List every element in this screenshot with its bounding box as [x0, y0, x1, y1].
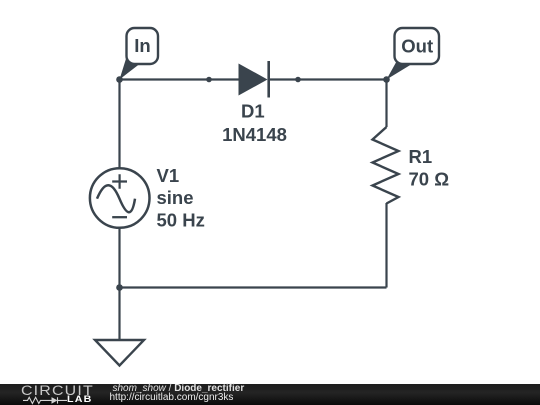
wire Out node down to R1 top — [385, 80, 387, 128]
V1 minus sign — [112, 216, 127, 218]
node dot D1 anode terminal — [206, 77, 212, 83]
node dot D1 cathode terminal — [295, 77, 301, 83]
wire V1 bottom to bottom junction — [118, 227, 120, 288]
flag In box — [127, 28, 159, 64]
svg-text:In: In — [134, 35, 150, 56]
logo diode triangle — [52, 397, 58, 404]
wire D1 cathode to Out node — [269, 78, 387, 80]
svg-text:Out: Out — [401, 36, 433, 57]
junction dot bottom — [116, 284, 123, 291]
svg-text:50 Hz: 50 Hz — [157, 210, 205, 231]
V1 plus sign — [112, 174, 127, 189]
diode D1 cathode bar — [267, 61, 270, 98]
node dot In — [116, 76, 123, 83]
flag In pointer — [120, 56, 141, 80]
wire In node down to V1 top — [118, 80, 120, 170]
diode D1 triangle (anode) — [239, 64, 268, 96]
svg-text:R1: R1 — [409, 146, 433, 167]
flag Out box — [395, 28, 440, 64]
node dot Out — [383, 76, 390, 83]
wire bottom junction to R1 bottom — [120, 286, 387, 288]
flag Out pointer — [387, 62, 412, 80]
V1 sine waveform — [97, 185, 135, 212]
wire In node to D1 anode — [120, 78, 239, 80]
logo wire squiggle (resistor + diode doodle) — [23, 397, 67, 403]
ground symbol — [95, 340, 144, 366]
svg-text:D1: D1 — [241, 101, 265, 122]
resistor R1 zigzag — [373, 127, 399, 204]
svg-text:70 Ω: 70 Ω — [409, 169, 450, 190]
wire R1 bottom to bottom wire — [385, 203, 387, 288]
svg-text:1N4148: 1N4148 — [222, 124, 287, 145]
wire bottom junction to ground — [118, 288, 120, 341]
svg-text:V1: V1 — [157, 165, 180, 186]
svg-text:sine: sine — [157, 187, 194, 208]
voltage source V1 circle — [90, 168, 150, 228]
